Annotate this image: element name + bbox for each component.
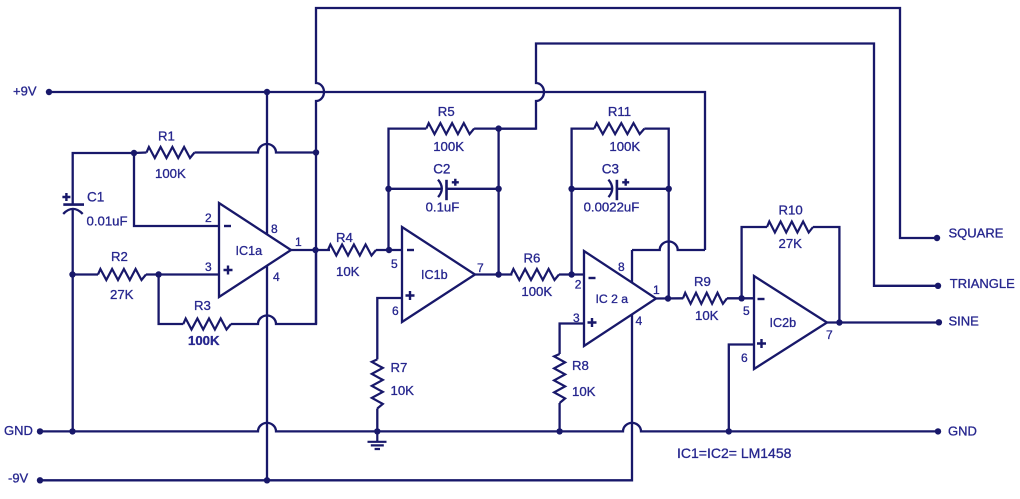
resistor R3 bbox=[183, 319, 231, 330]
svg-text:R8: R8 bbox=[572, 358, 589, 373]
node IC2b pin6 / GND bbox=[726, 428, 732, 434]
SINE terminal dot bbox=[936, 319, 942, 325]
resistor R11 bbox=[594, 123, 644, 134]
resistor R8 bbox=[554, 354, 565, 403]
wire R5 loop right bbox=[474, 129, 536, 275]
wire R10 loop bbox=[742, 227, 840, 323]
svg-text:2: 2 bbox=[205, 211, 212, 225]
node R1 right / square branch bbox=[313, 149, 319, 155]
node C2 right bbox=[495, 186, 501, 192]
wire IC2a pin3 to R8 bbox=[560, 324, 584, 355]
svg-text:R6: R6 bbox=[524, 251, 541, 266]
op-amp IC1b bbox=[402, 227, 475, 322]
svg-text:IC1=IC2= LM1458: IC1=IC2= LM1458 bbox=[677, 445, 792, 461]
node R10 / output bbox=[836, 319, 842, 325]
wire R11 loop right bbox=[644, 129, 668, 299]
wire C3 leads bbox=[572, 188, 669, 190]
svg-text:R1: R1 bbox=[158, 129, 175, 144]
node R1 left / C1 bbox=[131, 150, 137, 156]
svg-text:7: 7 bbox=[826, 328, 833, 342]
wire C2 leads bbox=[389, 188, 499, 190]
op-amp IC2a bbox=[584, 251, 656, 346]
svg-text:R7: R7 bbox=[391, 360, 408, 375]
resistor R4 bbox=[328, 245, 376, 256]
node R2 left bbox=[69, 271, 75, 277]
IC1b plus bbox=[406, 291, 415, 300]
svg-text:8: 8 bbox=[618, 260, 625, 274]
resistor R1 bbox=[147, 147, 195, 158]
wire square output run bbox=[316, 8, 937, 324]
node R6 / IC2a pin2 bbox=[568, 271, 574, 277]
C3 plus sign bbox=[622, 179, 629, 186]
svg-text:100K: 100K bbox=[521, 284, 552, 299]
svg-text:IC2b: IC2b bbox=[770, 316, 797, 330]
resistor R10 bbox=[767, 222, 813, 233]
node IC1b output bbox=[495, 271, 501, 277]
svg-text:100K: 100K bbox=[433, 139, 464, 154]
svg-text:C3: C3 bbox=[602, 162, 619, 177]
-9V terminal dot bbox=[37, 477, 43, 483]
wire IC1b pin6 to R7 bbox=[377, 298, 402, 359]
node C2 left bbox=[385, 186, 391, 192]
svg-text:R11: R11 bbox=[608, 104, 631, 119]
wire +9V rail bbox=[49, 92, 705, 250]
node R7/GND bbox=[374, 428, 380, 434]
wire IC2b output to SINE bbox=[827, 321, 939, 323]
node IC2a output bbox=[665, 295, 671, 301]
resistor R5 bbox=[426, 123, 474, 134]
svg-text:R10: R10 bbox=[779, 202, 803, 217]
capacitor C1 plus sign bbox=[62, 193, 70, 201]
svg-text:6: 6 bbox=[741, 351, 748, 365]
wire IC1a pin8 to +9V bbox=[266, 92, 268, 235]
resistor R2 bbox=[98, 269, 146, 280]
svg-text:+9V: +9V bbox=[13, 84, 37, 99]
wire R5 loop left bbox=[389, 129, 427, 250]
svg-text:10K: 10K bbox=[695, 308, 719, 323]
svg-text:R5: R5 bbox=[438, 104, 455, 119]
svg-text:1: 1 bbox=[295, 235, 302, 249]
wire IC1a pin4 to -9V bbox=[266, 266, 268, 481]
svg-text:27K: 27K bbox=[779, 236, 803, 251]
svg-text:R4: R4 bbox=[336, 230, 353, 245]
svg-text:1: 1 bbox=[653, 283, 660, 297]
wire C1 top to R1 node bbox=[73, 153, 134, 205]
ground symbol bbox=[368, 431, 387, 449]
IC1b minus bbox=[407, 249, 414, 251]
wire +9V feed to IC2a pin 8 bbox=[632, 242, 705, 251]
svg-text:0.0022uF: 0.0022uF bbox=[584, 200, 640, 215]
svg-text:4: 4 bbox=[273, 270, 280, 284]
node IC1a output bbox=[312, 247, 318, 253]
svg-text:IC1b: IC1b bbox=[421, 268, 448, 282]
svg-text:IC 2 a: IC 2 a bbox=[596, 292, 629, 306]
wire R7 to GND bbox=[376, 409, 378, 432]
IC2b minus bbox=[758, 298, 765, 300]
wire R6 lead right bbox=[559, 273, 584, 275]
svg-text:3: 3 bbox=[205, 260, 212, 274]
IC2a plus bbox=[588, 318, 597, 327]
GND right dot bbox=[935, 428, 941, 434]
node C1/GND bbox=[69, 428, 75, 434]
wire IC1b output bbox=[475, 273, 512, 275]
capacitor C1 plates bbox=[63, 203, 84, 206]
+9V terminal dot bbox=[46, 89, 52, 95]
svg-text:SINE: SINE bbox=[949, 314, 980, 329]
svg-text:4: 4 bbox=[636, 314, 643, 328]
resistor R9 bbox=[683, 293, 727, 304]
capacitor C3 bbox=[608, 180, 612, 198]
svg-text:GND: GND bbox=[4, 423, 33, 438]
node -9V / IC1a pin4 bbox=[264, 477, 270, 483]
node R2 right / pin3 bbox=[155, 271, 161, 277]
wire IC2a output bbox=[656, 297, 683, 300]
svg-text:27K: 27K bbox=[110, 287, 134, 302]
svg-text:R3: R3 bbox=[194, 298, 211, 313]
svg-text:0.1uF: 0.1uF bbox=[426, 200, 460, 215]
TRIANGLE terminal dot bbox=[935, 283, 941, 289]
svg-text:100K: 100K bbox=[155, 166, 186, 181]
svg-text:100K: 100K bbox=[188, 333, 220, 348]
wire R4 lead right bbox=[376, 249, 402, 251]
node R8/GND bbox=[556, 428, 562, 434]
svg-text:10K: 10K bbox=[336, 264, 360, 279]
wire R9 lead right bbox=[727, 297, 754, 299]
resistor R6 bbox=[511, 269, 559, 280]
wire R1 leads bbox=[134, 144, 316, 153]
wire -9V rail bbox=[40, 315, 632, 481]
wire triangle output run bbox=[499, 44, 938, 286]
svg-text:R9: R9 bbox=[694, 274, 711, 289]
svg-text:SQUARE: SQUARE bbox=[949, 225, 1004, 240]
op-amp IC2b bbox=[754, 276, 827, 369]
svg-text:C2: C2 bbox=[433, 162, 450, 177]
svg-text:2: 2 bbox=[575, 277, 582, 291]
wire IC1a output bbox=[291, 249, 330, 251]
C2 plus sign bbox=[452, 179, 459, 186]
wire IC2b pin6 to GND bbox=[729, 345, 754, 432]
wire R2 leads bbox=[73, 273, 220, 275]
svg-text:10K: 10K bbox=[572, 384, 596, 399]
svg-text:GND: GND bbox=[948, 424, 977, 439]
svg-text:R2: R2 bbox=[111, 249, 128, 264]
wire C1 bottom to GND bbox=[72, 210, 74, 432]
wire GND rail bbox=[40, 423, 938, 432]
node R9 / IC2b pin5 bbox=[738, 295, 744, 301]
IC2a minus bbox=[589, 277, 596, 279]
node C3 right bbox=[666, 186, 672, 192]
wire R11 loop left bbox=[572, 129, 595, 275]
SQUARE terminal dot bbox=[934, 235, 940, 241]
GND terminal dot bbox=[37, 428, 43, 434]
svg-text:10K: 10K bbox=[391, 383, 415, 398]
IC1a minus bbox=[224, 225, 231, 227]
svg-text:100K: 100K bbox=[609, 139, 640, 154]
node R5 right bbox=[495, 125, 501, 131]
resistor R7 bbox=[372, 359, 383, 408]
svg-text:8: 8 bbox=[271, 222, 278, 236]
wire R3 loop bbox=[159, 250, 316, 324]
svg-text:-9V: -9V bbox=[8, 470, 29, 485]
svg-text:5: 5 bbox=[391, 257, 398, 271]
svg-text:7: 7 bbox=[477, 261, 484, 275]
capacitor C2 bbox=[438, 180, 442, 198]
node +9V / IC1a pin8 bbox=[264, 89, 270, 95]
svg-text:5: 5 bbox=[743, 304, 750, 318]
IC2b plus bbox=[757, 339, 766, 348]
svg-text:C1: C1 bbox=[87, 190, 104, 205]
svg-text:6: 6 bbox=[392, 304, 399, 318]
IC1a plus bbox=[224, 266, 233, 275]
wire R8 to GND bbox=[558, 403, 560, 431]
op-amp IC1a bbox=[219, 203, 291, 297]
svg-text:TRIANGLE: TRIANGLE bbox=[950, 276, 1015, 291]
wire R1 node to IC1a pin2 bbox=[134, 153, 219, 226]
node R4 / IC1b pin5 bbox=[386, 247, 392, 253]
svg-text:IC1a: IC1a bbox=[236, 244, 263, 258]
node C3 left bbox=[568, 186, 574, 192]
svg-text:0.01uF: 0.01uF bbox=[87, 214, 128, 229]
wire IC2a pin8 bbox=[631, 250, 633, 282]
